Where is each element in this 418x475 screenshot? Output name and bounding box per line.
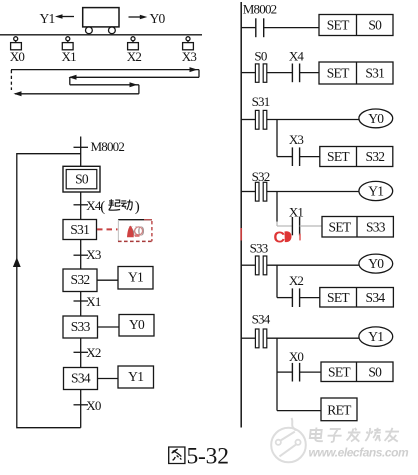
svg-text:5-32: 5-32 <box>187 444 229 470</box>
rung3 branch wire <box>277 120 292 157</box>
svg-text:X3: X3 <box>86 247 101 262</box>
rung4 box SET S33 <box>322 217 393 238</box>
svg-text:www.elecfans.com: www.elecfans.com <box>309 446 410 460</box>
transition X2 <box>74 345 101 360</box>
svg-text:(: ( <box>100 199 105 215</box>
svg-text:SET: SET <box>327 149 350 164</box>
red dashed link S31 to Y0 <box>97 228 118 230</box>
limit switch X2 <box>127 37 142 64</box>
limit switch X1 <box>62 37 77 64</box>
watermark char dian <box>310 428 325 442</box>
svg-text:SET: SET <box>327 18 350 33</box>
svg-text:S0: S0 <box>75 172 89 187</box>
svg-text:Y0: Y0 <box>150 11 166 26</box>
transition X3 <box>74 247 101 262</box>
RET box <box>321 398 357 421</box>
svg-text:X3: X3 <box>289 132 304 147</box>
svg-text:X0: X0 <box>86 398 101 413</box>
rung3 contact X3 <box>289 132 320 166</box>
rung4 contact X1 <box>289 205 322 236</box>
svg-text:C: C <box>274 229 286 246</box>
svg-text:Y1: Y1 <box>368 183 383 198</box>
link S34 to Y1 <box>98 378 119 380</box>
svg-text:S31: S31 <box>252 94 270 109</box>
svg-text:SET: SET <box>328 364 351 379</box>
transition X0 <box>74 398 101 413</box>
svg-text:Y0: Y0 <box>368 256 384 271</box>
rail line <box>0 34 202 36</box>
link S33 to Y0 <box>98 326 120 328</box>
initial step S0 <box>63 166 100 192</box>
motion path line 4 left to X0 <box>14 91 139 96</box>
svg-text:X0: X0 <box>10 49 25 64</box>
svg-text:X2: X2 <box>86 345 101 360</box>
cart wheel right <box>109 27 116 34</box>
rung6 coil Y1 <box>359 327 393 346</box>
svg-text:S31: S31 <box>70 222 89 237</box>
watermark char you <box>384 428 399 442</box>
svg-text:Y1: Y1 <box>128 270 143 285</box>
cart wheel left <box>86 27 93 34</box>
rung4 state contact S32 <box>241 169 359 201</box>
rung5 contact X2 <box>289 273 320 307</box>
svg-text:X4: X4 <box>289 49 305 64</box>
glyph qi (start) <box>109 199 121 210</box>
svg-text:Y0: Y0 <box>368 111 384 126</box>
SFC return line <box>17 154 81 428</box>
svg-text:X2: X2 <box>127 49 142 64</box>
svg-text:S0: S0 <box>368 18 382 33</box>
svg-text:S0: S0 <box>368 364 382 379</box>
rung2 state contact S0 <box>241 49 292 83</box>
limit switch X0 <box>10 37 25 64</box>
svg-text:S34: S34 <box>252 312 271 327</box>
glyph dong (start) <box>121 200 132 210</box>
watermark char fa <box>346 428 360 442</box>
svg-text:S33: S33 <box>71 319 91 334</box>
watermark char shao <box>365 428 381 441</box>
limit switch X3 <box>182 37 197 64</box>
svg-text:S34: S34 <box>71 371 91 386</box>
rung4 branch wire <box>277 192 292 227</box>
transition M8002 <box>74 139 125 154</box>
svg-text:RET: RET <box>327 403 352 418</box>
caption text 5-32 <box>187 444 229 470</box>
watermark char zi <box>327 429 342 442</box>
svg-text:Y1: Y1 <box>128 369 143 384</box>
rung5 box SET S34 <box>320 288 394 308</box>
step S31 <box>63 220 97 240</box>
motion path line 1 right to X3 <box>11 67 199 77</box>
svg-text:S32: S32 <box>365 149 384 164</box>
action box Y1 lower <box>118 366 154 388</box>
svg-text:X1: X1 <box>86 294 101 309</box>
rung4 coil Y1 <box>359 181 393 200</box>
svg-text:X2: X2 <box>289 273 304 288</box>
svg-text:Y1: Y1 <box>40 11 55 26</box>
svg-text:X3: X3 <box>182 49 197 64</box>
svg-text:S0: S0 <box>254 49 266 64</box>
rung6 RET wire <box>277 410 321 412</box>
link S32 to Y1 <box>97 279 118 281</box>
label Y1 left motion <box>40 11 55 26</box>
rung5 state contact S33 <box>241 241 359 275</box>
svg-text:S34: S34 <box>366 290 386 305</box>
svg-text:SET: SET <box>329 219 352 234</box>
SFC main vertical line <box>80 137 82 428</box>
rung2 box SET S31 <box>319 62 393 84</box>
motion path line 2 left to X1 <box>69 75 200 85</box>
svg-text:S33: S33 <box>366 219 386 234</box>
svg-text:S32: S32 <box>71 272 90 287</box>
rung5 branch wire <box>277 265 292 297</box>
arrow right Y0 <box>129 15 148 20</box>
rung6 box SET S0 <box>321 362 393 382</box>
step S33 <box>63 316 98 338</box>
label Y0 right motion <box>150 11 166 26</box>
rung3 box SET S32 <box>320 147 393 167</box>
rung3 coil Y0 <box>359 109 393 128</box>
red watermark segment on rail <box>240 228 242 241</box>
action box Y1 <box>118 267 153 290</box>
svg-text:X1: X1 <box>289 205 304 220</box>
rung3 state contact S31 <box>241 94 359 129</box>
svg-text:SET: SET <box>327 290 350 305</box>
watermarked action box Y0 <box>118 220 152 242</box>
svg-text:S31: S31 <box>365 66 384 81</box>
transition X4 start <box>74 198 140 215</box>
rung6 contact X0 <box>289 349 321 382</box>
svg-text:X0: X0 <box>289 349 304 364</box>
transition X1 <box>74 294 101 309</box>
rung1 contact M8002 <box>241 1 319 37</box>
svg-text:Y1: Y1 <box>368 329 383 344</box>
rung2 contact X4 <box>289 49 319 82</box>
dashed start line at X0 <box>10 70 12 90</box>
rung6 state contact S34 <box>241 312 359 348</box>
action box Y0 <box>119 315 154 337</box>
svg-text:M8002: M8002 <box>91 139 125 154</box>
cart body <box>83 8 119 27</box>
rung5 coil Y0 <box>359 254 393 273</box>
svg-text:SET: SET <box>327 66 350 81</box>
svg-text:S33: S33 <box>250 241 268 256</box>
red watermark C mark <box>274 229 301 246</box>
rung6 branch wire <box>277 338 292 410</box>
SFC return arrow up <box>13 257 21 267</box>
watermark url text <box>309 446 410 460</box>
svg-text:Y0: Y0 <box>129 317 145 332</box>
step S34 <box>64 368 98 390</box>
arrow left Y1 <box>55 14 74 19</box>
caption glyph tu <box>169 447 185 464</box>
ladder left rail <box>240 2 242 428</box>
svg-text:X1: X1 <box>62 49 77 64</box>
svg-text:S32: S32 <box>252 169 270 184</box>
motion path line 3 right to X2 <box>70 82 139 94</box>
svg-text:M8002: M8002 <box>243 1 277 16</box>
watermark logo circle <box>271 418 306 462</box>
rung1 box SET S0 <box>319 15 393 36</box>
svg-text:): ) <box>135 199 140 215</box>
step S32 <box>63 269 97 292</box>
